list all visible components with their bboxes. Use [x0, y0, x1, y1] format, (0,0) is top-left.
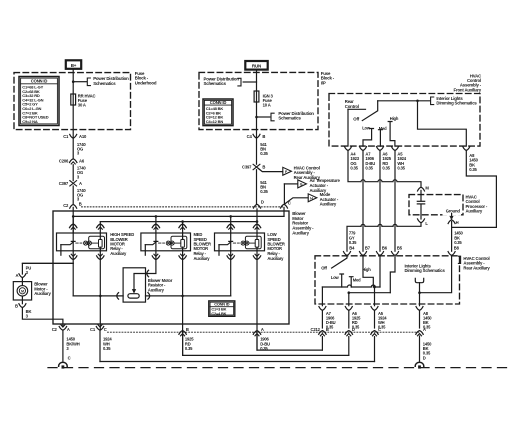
svg-text:Med: Med	[379, 126, 387, 131]
svg-text:0.35: 0.35	[454, 240, 462, 245]
fuse block underhood dashed box	[14, 73, 131, 130]
wire bus to low relay switch	[230, 216, 232, 233]
ignition node RUN	[245, 61, 267, 70]
svg-text:0.35: 0.35	[349, 240, 357, 245]
wire resistor right to low relay	[146, 295, 231, 297]
wires rear pins through C212	[321, 310, 323, 328]
wire 1740 OG segment 1	[72, 138, 74, 158]
low speed blower motor relay auxiliary	[215, 233, 265, 251]
wire 1450 BK to ground right	[419, 336, 421, 361]
rear box bottom pin connectors	[319, 307, 326, 311]
svg-text:C: C	[288, 200, 291, 205]
wire blower motor ground to C2	[22, 308, 63, 327]
svg-text:B5: B5	[397, 245, 403, 250]
svg-text:0.35: 0.35	[397, 165, 405, 170]
wire 1924 WH rise to rear control	[374, 337, 376, 362]
coil bus wire lower	[100, 221, 257, 223]
svg-text:B8: B8	[454, 245, 460, 250]
svg-text:C1: C1	[63, 134, 69, 139]
svg-text:D: D	[352, 327, 355, 332]
svg-text:Auxiliary: Auxiliary	[34, 291, 51, 296]
high speed blower motor relay auxiliary	[57, 233, 107, 251]
splice C397 pin A	[70, 181, 77, 186]
svg-text:3: 3	[77, 174, 80, 179]
HVAC control assembly front auxiliary box	[329, 94, 480, 147]
wire dimmer feed to A8	[418, 101, 467, 146]
interior lights dimming bracket front	[431, 97, 434, 105]
front switch high contact	[388, 122, 395, 147]
svg-text:0.35: 0.35	[260, 189, 268, 194]
interior lights dimming connector symbol	[415, 278, 423, 282]
wire A6 down	[379, 150, 381, 251]
blower motor auxiliary	[13, 282, 31, 300]
svg-text:A: A	[423, 327, 426, 332]
svg-text:Auxiliary: Auxiliary	[148, 287, 165, 292]
rear switch low contact	[340, 274, 344, 287]
resistor assembly connector dotted line	[82, 206, 283, 208]
svg-text:C397: C397	[59, 181, 69, 186]
wire bus to high relay switch	[72, 216, 74, 233]
svg-text:C: C	[68, 356, 71, 361]
front switch med contact	[379, 130, 383, 146]
svg-text:B6: B6	[382, 245, 388, 250]
rear switch high feed	[363, 255, 373, 287]
rear switch med contact	[349, 277, 353, 287]
med speed blower motor relay auxiliary	[141, 233, 191, 251]
wire to resistor left terminal	[73, 295, 123, 297]
blower motor resistor auxiliary box	[123, 268, 145, 302]
wire 1924 WH bottom run	[100, 361, 375, 363]
connector C4 pin B	[253, 134, 260, 138]
svg-text:B+: B+	[71, 63, 77, 68]
svg-text:B: B	[326, 327, 329, 332]
connector C2 pin B	[70, 204, 77, 208]
svg-text:Dimming Schematics: Dimming Schematics	[436, 101, 477, 106]
svg-text:C206: C206	[59, 158, 69, 163]
wire 1906 D-BU rise to rear control	[321, 337, 323, 351]
wire L to B4	[347, 223, 421, 252]
svg-text:High: High	[362, 267, 371, 272]
wire high relay coil to C1	[99, 251, 101, 330]
wire bus to low relay coil	[256, 222, 258, 233]
svg-text:Off: Off	[353, 116, 359, 121]
junction to blower motor feed	[22, 262, 73, 264]
resistor internal feed with arrow	[134, 274, 146, 290]
svg-text:Off: Off	[321, 266, 327, 271]
connector C2 pin A	[61, 325, 65, 327]
ground strap dashed line	[48, 367, 512, 369]
wire rear pin C down	[374, 287, 376, 306]
power distribution schematics bracket	[87, 78, 90, 86]
connector pin H processor	[448, 220, 455, 224]
wire 1740 OG segment 2	[72, 165, 74, 181]
svg-text:C4=12 BN: C4=12 BN	[206, 119, 224, 124]
wire RUN to fuse	[256, 70, 258, 138]
svg-text:A: A	[79, 181, 82, 186]
branch wire power distribution left	[243, 81, 256, 83]
svg-text:Underhood: Underhood	[135, 81, 157, 86]
svg-text:A: A	[67, 327, 70, 332]
connector C1 pin C	[98, 325, 102, 327]
wire med relay output to resistor top	[146, 251, 156, 274]
fuse IGN 3 10A	[254, 91, 259, 102]
svg-text:C: C	[104, 327, 107, 332]
svg-text:0.35: 0.35	[365, 165, 373, 170]
svg-text:C2: C2	[52, 327, 58, 332]
svg-text:0.35: 0.35	[103, 346, 111, 351]
svg-text:Rear Auxiliary: Rear Auxiliary	[463, 265, 490, 270]
svg-text:H: H	[456, 220, 459, 225]
connector id table IP	[203, 99, 233, 126]
svg-text:High: High	[390, 116, 399, 121]
svg-text:RUN: RUN	[252, 63, 261, 68]
svg-text:0.35: 0.35	[260, 151, 268, 156]
wire low relay coil down to C212	[256, 251, 258, 350]
ground left	[59, 362, 68, 366]
svg-text:Ground: Ground	[446, 209, 461, 214]
svg-text:Auxiliary: Auxiliary	[110, 251, 127, 256]
wire rear pin D down	[348, 293, 350, 306]
HVAC control assembly rear auxiliary box	[315, 256, 460, 304]
resistor entry connector top	[147, 270, 149, 277]
resistor exit connector right	[148, 293, 150, 300]
svg-text:I/P: I/P	[321, 81, 326, 86]
connector C206 pin A6	[70, 159, 77, 163]
svg-text:0.35: 0.35	[469, 167, 477, 172]
HVAC control processor auxiliary box	[409, 195, 463, 215]
svg-text:0.35: 0.35	[185, 346, 193, 351]
svg-text:C9=2 NA: C9=2 NA	[22, 119, 38, 124]
svg-text:10 A: 10 A	[263, 102, 271, 107]
wire 1925 RD bottom run	[183, 336, 349, 355]
wire A7 down	[362, 150, 364, 251]
branch wire to mode actuator	[285, 198, 308, 204]
svg-text:C1: C1	[90, 327, 96, 332]
wire bus to med relay coil	[182, 222, 184, 233]
rear box top pin connectors	[344, 252, 351, 256]
power distribution schematics bracket right	[271, 113, 274, 121]
wire 1924 WH down	[99, 330, 101, 361]
connector C212 crossing 1925 RD	[179, 331, 186, 335]
power bus wire upper	[73, 215, 284, 217]
svg-text:Auxiliary: Auxiliary	[194, 256, 211, 261]
wire A4 to processor M	[348, 150, 421, 186]
battery node B+	[66, 60, 81, 69]
resistor entry connector left	[117, 293, 119, 300]
wire A8 1450 BK to ground path	[452, 150, 497, 227]
svg-text:3: 3	[26, 314, 29, 319]
connector pin D resistor assembly	[254, 204, 261, 208]
wire B8 to dimmer junction	[420, 255, 452, 292]
blower motor resistor assembly box	[53, 211, 289, 324]
off-page triangle F HVAC control assembly rear auxiliary	[283, 167, 292, 175]
svg-text:B: B	[262, 164, 265, 169]
svg-text:CONN ID: CONN ID	[31, 78, 48, 83]
svg-text:C2: C2	[63, 203, 69, 208]
wire rear pin A down	[419, 293, 421, 306]
svg-text:Auxiliary: Auxiliary	[466, 209, 483, 214]
front switch common wire	[378, 100, 431, 102]
svg-text:M: M	[21, 289, 24, 293]
wire B6 into bus A	[379, 255, 381, 287]
wire rear control to A4	[347, 109, 349, 146]
svg-text:Control: Control	[345, 104, 359, 109]
svg-text:L: L	[425, 221, 428, 226]
wire 541 BN segment 2	[256, 170, 258, 204]
svg-text:B7: B7	[365, 245, 371, 250]
svg-text:Front Auxiliary: Front Auxiliary	[454, 87, 482, 92]
connector pin A blower motor	[19, 274, 26, 278]
svg-text:G: G	[300, 183, 303, 187]
resistor element	[128, 294, 139, 298]
svg-text:C: C	[378, 327, 381, 332]
connector C1 pin A10	[70, 134, 77, 138]
processor internal capacitor	[420, 190, 422, 201]
wire bus to pin C	[283, 207, 285, 216]
connector C212 crossings rear	[319, 331, 326, 335]
inline connectors below relays	[71, 254, 75, 256]
svg-text:A: A	[16, 273, 19, 278]
rear switch off contact	[332, 255, 347, 268]
svg-text:Schematics: Schematics	[93, 81, 116, 86]
power distribution schematics bracket left	[238, 78, 241, 86]
svg-text:C397: C397	[242, 164, 252, 169]
connector C212 crossing 1906 D-BU	[253, 331, 260, 335]
connector pin B blower motor	[19, 304, 26, 308]
wire bus to pin D	[256, 209, 258, 222]
wire low relay switch up	[230, 251, 232, 296]
svg-text:Low: Low	[362, 126, 371, 131]
ground label and arrow	[443, 208, 462, 216]
svg-text:C2=4 BK: C2=4 BK	[211, 311, 226, 316]
branch wire power distribution right	[257, 116, 270, 118]
inline connectors above relays	[70, 224, 77, 228]
svg-text:0.35: 0.35	[350, 165, 358, 170]
wire bus to high relay coil	[99, 222, 101, 233]
connector id table underhood	[19, 77, 59, 126]
svg-text:A: A	[261, 327, 264, 332]
ground right	[415, 362, 424, 366]
connector C212 dotted line	[108, 331, 420, 333]
svg-text:Dimming Schematics: Dimming Schematics	[405, 268, 446, 273]
svg-text:Auxiliary: Auxiliary	[267, 256, 284, 261]
svg-text:D: D	[423, 356, 426, 361]
wire 1450 BK/WH to ground	[62, 330, 64, 361]
wire 1906 D-BU bottom run	[257, 336, 322, 350]
svg-text:B: B	[262, 134, 265, 139]
wire B5 loop	[390, 255, 395, 292]
svg-text:Auxiliary: Auxiliary	[320, 202, 337, 207]
front box pin connectors	[345, 147, 352, 151]
branch wire to air temperature actuator	[284, 183, 297, 185]
HVAC control assembly rear auxiliary label	[458, 256, 460, 263]
svg-text:3: 3	[77, 151, 80, 156]
svg-text:C212: C212	[311, 327, 321, 332]
wire into resistor assembly	[72, 207, 74, 233]
connector pin L processor	[418, 219, 425, 223]
front switch off contact	[362, 101, 377, 121]
svg-text:CONN ID: CONN ID	[210, 100, 227, 105]
off-page triangle G air temperature actuator auxiliary	[298, 180, 307, 188]
svg-text:D: D	[261, 199, 264, 204]
svg-text:C4: C4	[247, 134, 253, 139]
svg-text:Auxiliary: Auxiliary	[292, 230, 309, 235]
svg-text:M: M	[425, 185, 429, 190]
wire med relay coil down	[182, 251, 184, 356]
fuse RR HVAC 30A	[71, 94, 76, 105]
splice C397 pin B	[253, 164, 260, 169]
wire high relay output	[72, 251, 74, 296]
branch wire to power distribution	[73, 81, 87, 83]
branch wire to rear HVAC control reference	[258, 168, 282, 171]
fuse block IP dashed box	[199, 72, 318, 129]
svg-text:0.35: 0.35	[382, 165, 390, 170]
svg-text:Schematics: Schematics	[204, 81, 227, 86]
rear switch bus B	[349, 292, 391, 294]
wire rear pin B down	[321, 287, 323, 306]
connector pin C resistor assembly	[281, 204, 288, 208]
svg-text:B: B	[79, 201, 82, 206]
wire bus to med relay switch	[155, 216, 157, 233]
off-page triangle H mode actuator auxiliary	[308, 194, 317, 202]
svg-text:B4: B4	[349, 245, 355, 250]
wire 541 BN segment 1	[256, 138, 258, 164]
svg-text:3: 3	[66, 346, 69, 351]
svg-text:B: B	[15, 303, 18, 308]
svg-text:Med: Med	[353, 277, 361, 282]
svg-text:A10: A10	[79, 134, 87, 139]
rear switch bus A	[322, 285, 380, 287]
svg-text:Schematics: Schematics	[278, 116, 301, 121]
conn id table resistor assembly	[209, 301, 235, 316]
svg-text:B: B	[186, 327, 189, 332]
wire A5 down	[394, 150, 396, 251]
connector pin M processor	[418, 187, 425, 191]
wire 1925 RD rise to rear control	[348, 337, 350, 356]
wire stub to actuator references	[283, 184, 285, 204]
svg-text:A6: A6	[79, 158, 85, 163]
svg-text:Low: Low	[331, 275, 340, 280]
wire 1740 OG segment 3	[72, 186, 74, 204]
wire blower motor feed	[22, 263, 73, 274]
wire B+ to fuse block	[72, 69, 74, 138]
front switch low contact	[363, 129, 374, 147]
svg-text:30 A: 30 A	[78, 102, 86, 107]
wire H to B8	[451, 222, 453, 252]
